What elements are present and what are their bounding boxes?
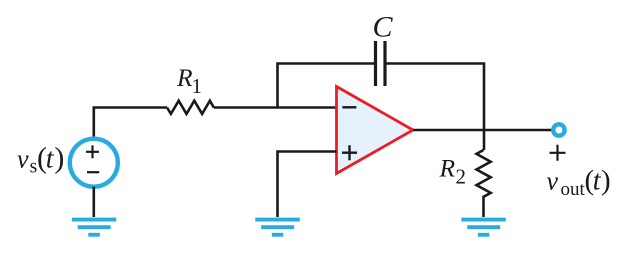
svg-text:v: v xyxy=(17,144,29,173)
source plus sign xyxy=(86,145,99,158)
svg-text:): ) xyxy=(601,165,611,197)
svg-text:R: R xyxy=(176,63,193,92)
op-amp U1 xyxy=(337,87,414,174)
svg-text:C: C xyxy=(373,11,394,44)
svg-text:R: R xyxy=(439,154,456,183)
ground below R2 xyxy=(461,218,506,237)
wire node to R2 xyxy=(483,130,486,150)
op-amp plus sign xyxy=(342,145,357,160)
ground below source xyxy=(72,218,117,237)
source minus sign xyxy=(87,171,99,173)
resistor R2 xyxy=(477,150,491,217)
svg-text:): ) xyxy=(54,141,64,174)
resistor R1 xyxy=(167,101,214,114)
wire feedback branch up to capacitor xyxy=(278,64,375,108)
output terminal xyxy=(553,124,564,135)
wire source to ground xyxy=(93,187,96,217)
output plus sign xyxy=(550,145,566,161)
capacitor C xyxy=(374,41,377,86)
op-amp minus sign xyxy=(342,106,356,108)
wire from source top to R1 xyxy=(94,108,167,139)
wire R1 to op-amp inverting input xyxy=(214,106,337,109)
ground below noninverting input xyxy=(255,218,299,237)
wire op-amp output to terminal xyxy=(413,129,552,132)
svg-text:1: 1 xyxy=(192,74,203,98)
svg-text:2: 2 xyxy=(456,165,467,189)
voltage source vs xyxy=(70,139,118,187)
wire noninverting input to ground xyxy=(278,152,337,218)
svg-text:out: out xyxy=(561,179,586,200)
svg-text:v: v xyxy=(547,167,559,196)
wire capacitor to output node xyxy=(387,64,485,131)
